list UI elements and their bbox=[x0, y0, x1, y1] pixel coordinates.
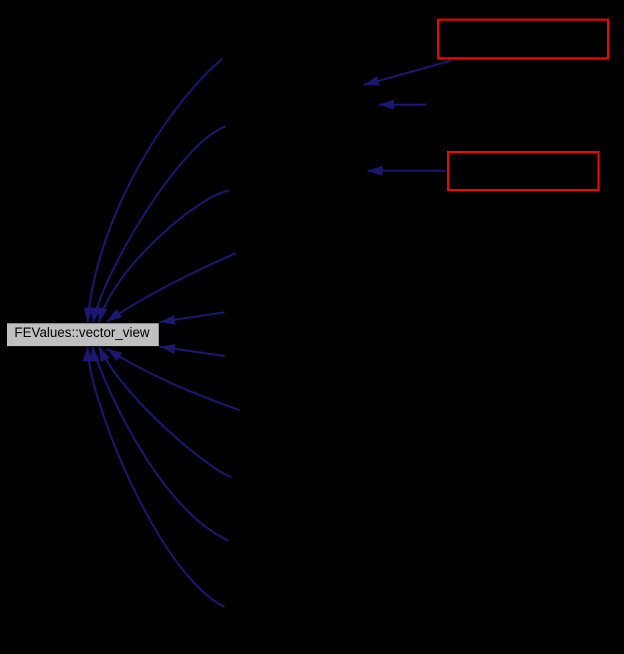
wire e6: caller edge from node 6 bbox=[160, 347, 225, 356]
wire e3: caller edge from node 3 bbox=[99, 191, 230, 323]
wire a3: edge from red box R2 to node 3 bbox=[368, 170, 446, 172]
node U1: central node FEValues::vector_view bbox=[7, 323, 160, 347]
wire e10: caller edge from node 10 bbox=[88, 346, 225, 607]
wire e7: caller edge from node 7 bbox=[107, 349, 240, 410]
wire a2: edge from hidden node to node 2 bbox=[379, 104, 427, 106]
wire e8: caller edge from node 8 bbox=[99, 346, 232, 477]
node R2: truncated caller box (red border) bbox=[448, 152, 599, 190]
wire e1: caller edge from node 1 to FEValues::vector_view bbox=[88, 59, 223, 323]
wire e9: caller edge from node 9 bbox=[93, 346, 229, 540]
wire e4: caller edge from node 4 bbox=[107, 253, 236, 321]
wire e5: caller edge from node 5 bbox=[160, 312, 225, 322]
wire e2: caller edge from node 2 bbox=[93, 126, 226, 322]
node R1: truncated caller box (red border) bbox=[438, 20, 608, 59]
wire a1: edge from red box R1 to node 1 bbox=[364, 61, 451, 85]
svg-text:FEValues::vector_view: FEValues::vector_view bbox=[14, 325, 150, 340]
